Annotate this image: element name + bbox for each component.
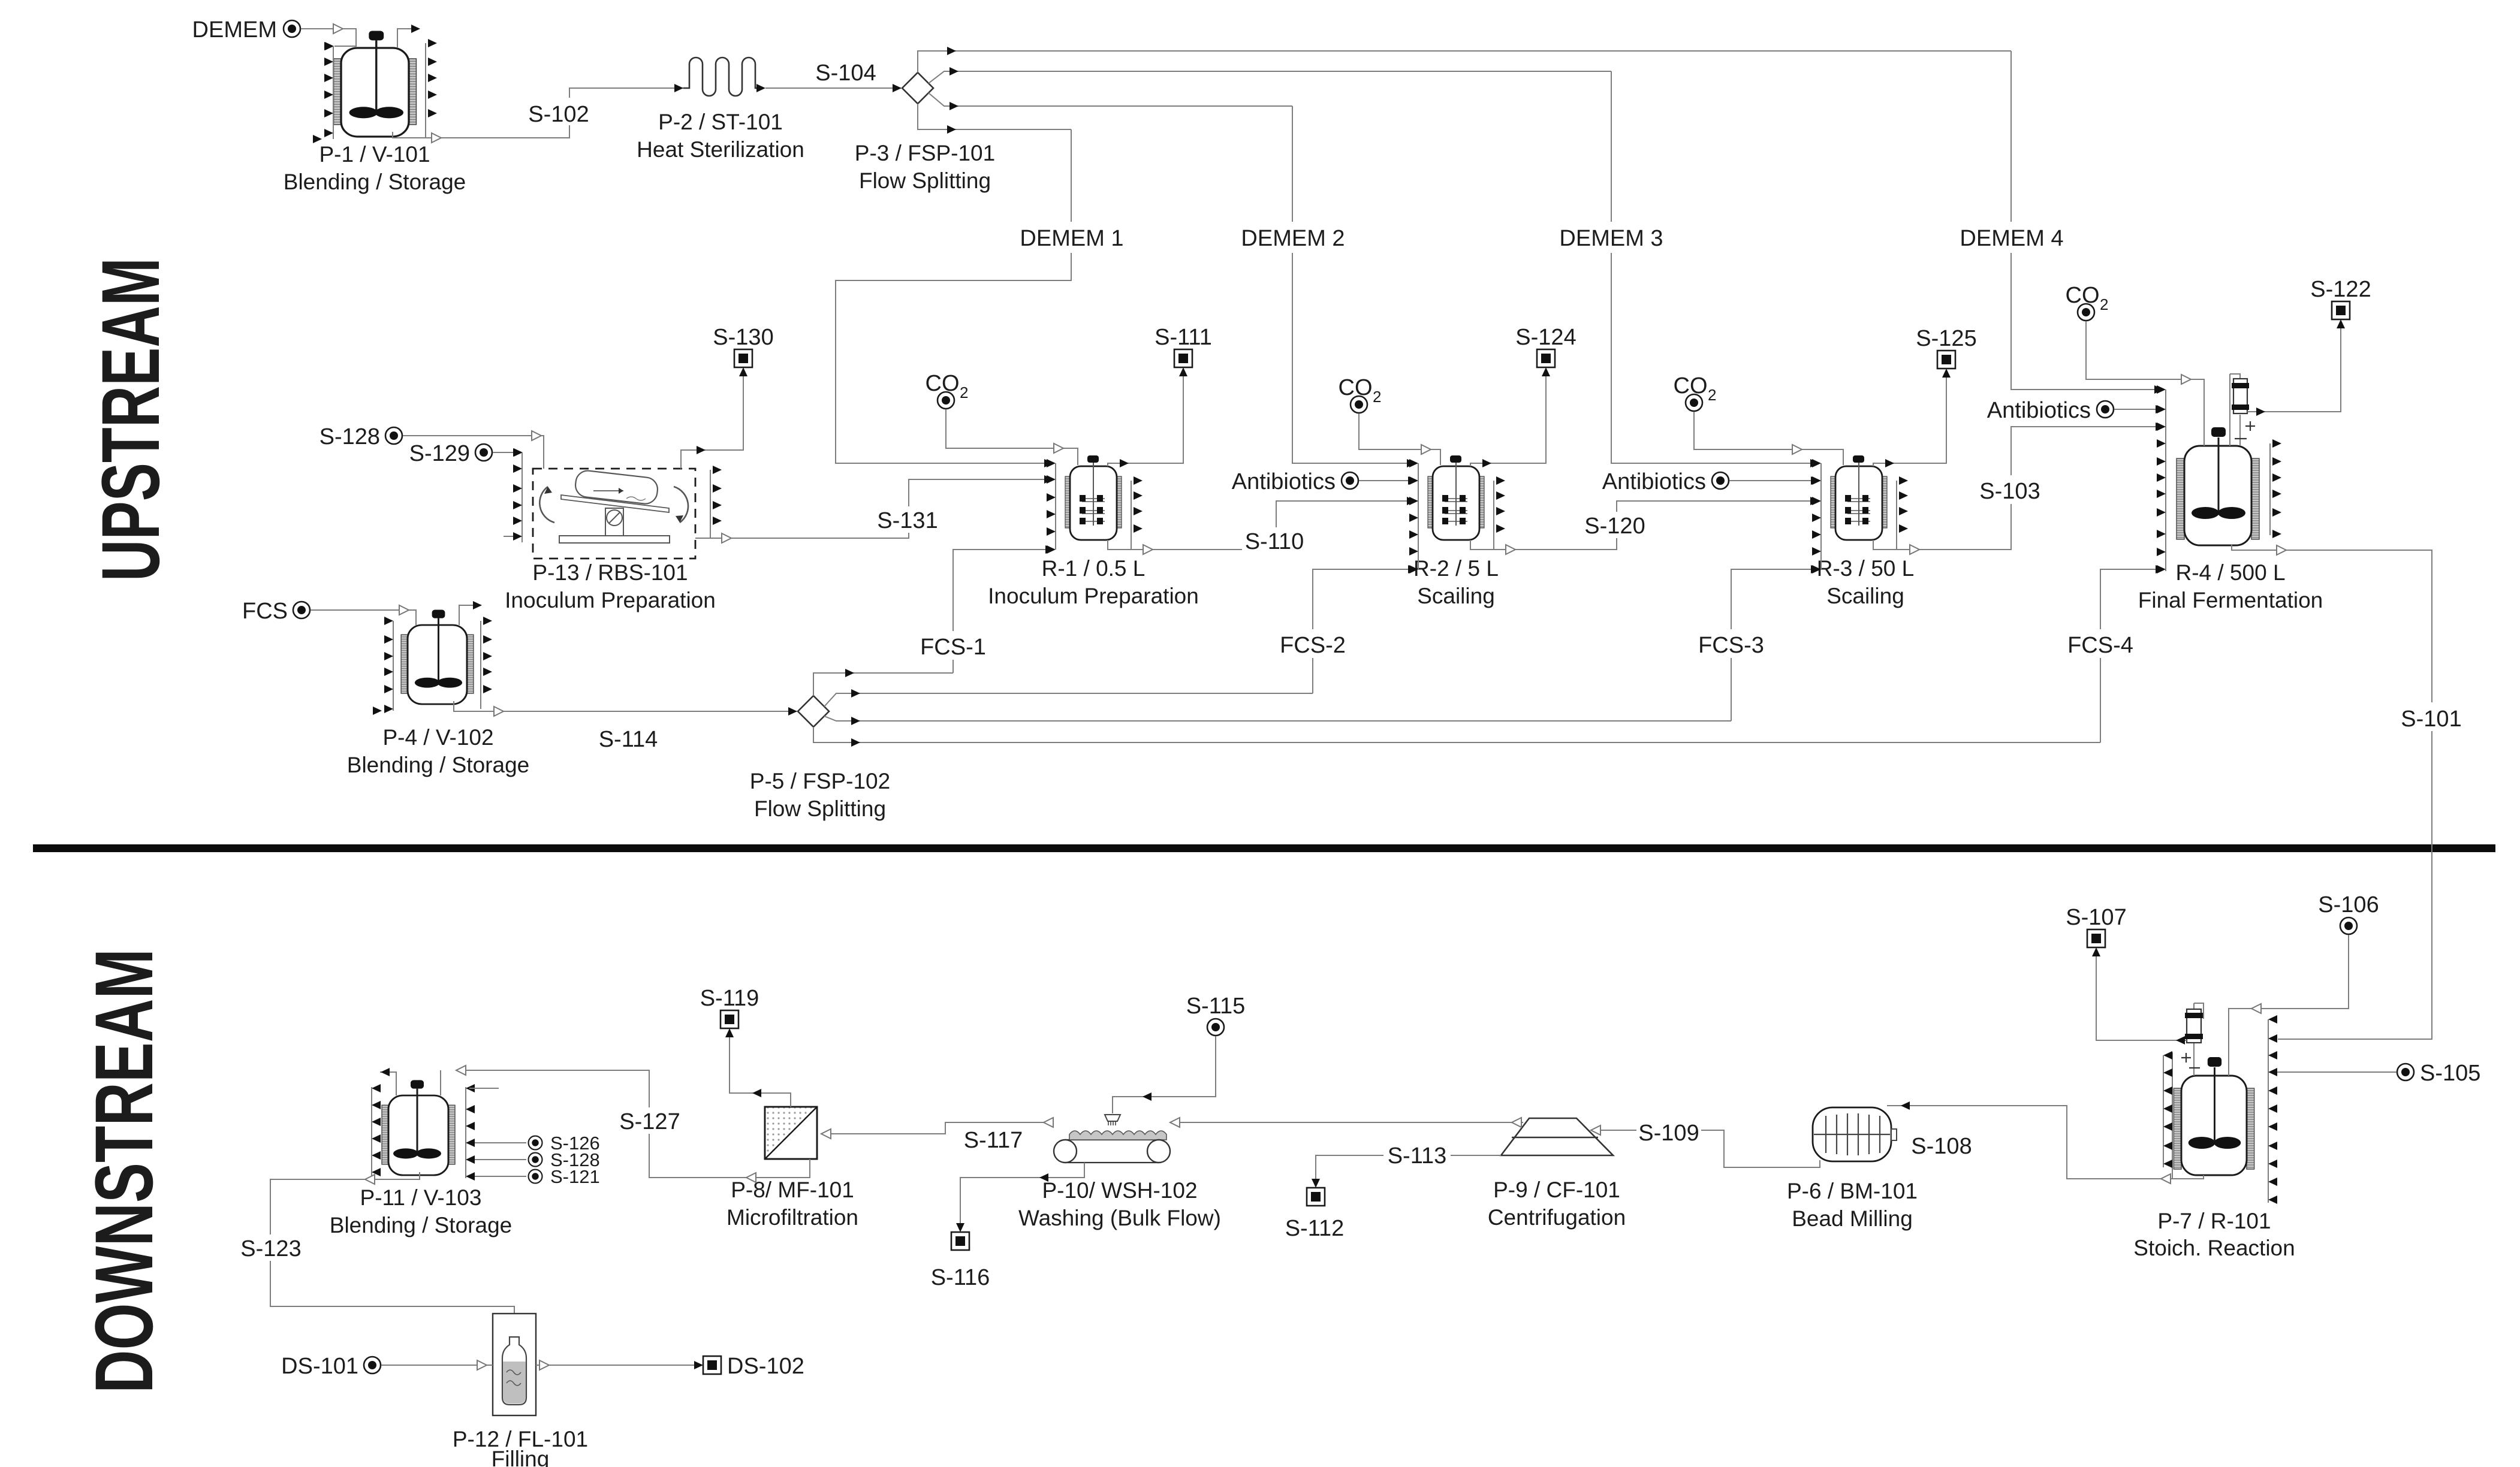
wire S-111 R-1 vent to sink: [1108, 369, 1183, 466]
wire S-102 P-1 to P-2: [393, 88, 683, 138]
svg-text:2: 2: [960, 384, 968, 402]
stream source S-128: [385, 427, 402, 444]
wire DEMEM 4 vertical to R-4: [2011, 51, 2156, 390]
svg-text:CO: CO: [926, 371, 960, 396]
rocker base: [559, 536, 670, 543]
svg-text:DEMEM 1: DEMEM 1: [1020, 226, 1123, 251]
svg-text:S-119: S-119: [700, 986, 759, 1011]
P-11 stub top right: [469, 1088, 499, 1089]
P-7 right inlet port column: [2268, 1019, 2269, 1203]
wire S-119 P-8 to sink: [730, 1030, 791, 1107]
wire Antibiotics to R-4: [2114, 409, 2157, 410]
svg-text:P-11 / V-103: P-11 / V-103: [360, 1185, 482, 1210]
stream source S-126: [529, 1136, 542, 1150]
stream source S-115: [1207, 1019, 1224, 1036]
wire S-104 P-2 to P-3: [765, 87, 901, 89]
svg-text:S-131: S-131: [877, 508, 938, 533]
stream source Antibiotics for R-3: [1712, 472, 1729, 489]
stream sink S-130: [734, 349, 752, 367]
stream source CO2 for R-2: [1351, 396, 1367, 413]
stream source DEMEM: [284, 20, 300, 37]
stream source DS-101: [364, 1357, 381, 1374]
P-7 inner pipe: [2172, 1052, 2173, 1179]
wire S-125 R-3 vent to sink: [1873, 370, 1946, 466]
svg-text:S-123: S-123: [240, 1236, 301, 1261]
svg-text:FCS-2: FCS-2: [1280, 633, 1346, 658]
svg-text:Flow Splitting: Flow Splitting: [859, 168, 991, 193]
wire S-120 R-2 to R-3: [1470, 501, 1811, 550]
wire S-121 to P-11: [475, 1176, 526, 1177]
svg-text:Filling: Filling: [492, 1447, 550, 1467]
svg-text:2: 2: [1373, 388, 1381, 406]
svg-text:FCS: FCS: [242, 599, 288, 624]
wire Antibiotics to R-3: [1729, 480, 1812, 481]
microfilter P-8 / MF-101: [765, 1107, 817, 1159]
wire splitter out 4 to DEMEM 1 drop: [918, 104, 1071, 129]
stream source CO2 for R-1: [938, 392, 954, 409]
P-7 sample valve marks: [2181, 1053, 2200, 1068]
svg-text:S-114: S-114: [599, 727, 658, 752]
svg-text:S-113: S-113: [1388, 1143, 1447, 1169]
wire S-106 to P-7: [2229, 935, 2349, 1076]
stream source S-128b: [529, 1153, 542, 1167]
wire splitter out 1 to DEMEM 4 drop: [918, 51, 2011, 73]
R-2 left inlet port column: [1418, 463, 1419, 569]
svg-text:S-129: S-129: [409, 441, 470, 466]
svg-text:DS-102: DS-102: [727, 1354, 804, 1379]
rocking bioreactor P-13 / RBS-101: [533, 469, 695, 559]
svg-text:P-9 / CF-101: P-9 / CF-101: [1493, 1178, 1620, 1202]
svg-text:S-128: S-128: [319, 424, 380, 449]
P-1 right outlet port column: [425, 43, 426, 138]
svg-text:S-110: S-110: [1245, 529, 1304, 554]
wire FCS-4 to R-4: [2100, 569, 2157, 742]
svg-text:S-120: S-120: [1584, 514, 1645, 539]
section divider line: [33, 844, 2495, 852]
svg-text:P-3 / FSP-101: P-3 / FSP-101: [855, 141, 995, 165]
svg-text:DEMEM 3: DEMEM 3: [1559, 226, 1663, 251]
svg-text:S-105: S-105: [2420, 1061, 2480, 1086]
svg-text:FCS-3: FCS-3: [1698, 633, 1764, 658]
stream sink S-124: [1537, 349, 1555, 367]
svg-text:DEMEM: DEMEM: [192, 17, 277, 43]
P-4 right outlet port column: [480, 621, 481, 709]
svg-text:P-6 / BM-101: P-6 / BM-101: [1787, 1179, 1918, 1203]
stream sink S-125: [1937, 351, 1955, 369]
svg-text:P-5 / FSP-102: P-5 / FSP-102: [750, 769, 890, 793]
svg-text:CO: CO: [1674, 373, 1708, 399]
svg-text:P-7 / R-101: P-7 / R-101: [2157, 1209, 2271, 1233]
P-7 condenser pipes: [2194, 1003, 2204, 1076]
svg-text:S-106: S-106: [2318, 892, 2379, 917]
P-11 top right inlet pipe: [440, 1070, 441, 1095]
fermenter R-2 / 5 L: [1428, 455, 1484, 540]
wire S-116 washer to sink: [960, 1163, 1084, 1224]
svg-text:S-115: S-115: [1186, 994, 1246, 1019]
wire S-101 R-4 to P-7: [2232, 545, 2432, 1039]
svg-text:R-1 / 0.5 L: R-1 / 0.5 L: [1042, 556, 1146, 581]
wire splitter out 2 FCS-2: [824, 693, 1313, 707]
svg-text:R-3 / 50 L: R-3 / 50 L: [1817, 556, 1914, 581]
stream source S-121: [529, 1170, 542, 1184]
stream sink S-107: [2087, 929, 2105, 947]
svg-text:Blending / Storage: Blending / Storage: [284, 170, 466, 194]
svg-text:S-112: S-112: [1285, 1216, 1345, 1241]
washer P-10 / WSH-102: [1054, 1115, 1170, 1163]
svg-text:Washing (Bulk Flow): Washing (Bulk Flow): [1018, 1206, 1221, 1230]
wire S-105 to P-7: [2277, 1071, 2397, 1073]
stream sink S-119: [721, 1010, 738, 1028]
svg-text:Centrifugation: Centrifugation: [1488, 1205, 1626, 1230]
wire CO2 to R-2: [1359, 413, 1440, 465]
wire S-114 P-4 to P-5: [454, 701, 797, 711]
R-2 right outlet port column: [1493, 481, 1494, 550]
blending tank P-11 / V-103: [382, 1080, 455, 1175]
svg-text:DEMEM 2: DEMEM 2: [1241, 226, 1345, 251]
R-4 condenser: [2233, 379, 2247, 413]
R-3 right outlet port column: [1896, 481, 1897, 550]
fermenter R-3 / 50 L: [1831, 455, 1887, 540]
wire splitter out 4 FCS-4: [813, 727, 2100, 742]
R-3 left inlet port column: [1820, 463, 1822, 569]
svg-text:Heat Sterilization: Heat Sterilization: [637, 137, 804, 162]
P-11 right inlet port column: [465, 1087, 466, 1178]
heat sterilizer coil P-2 / ST-101: [683, 58, 756, 96]
svg-text:S-127: S-127: [619, 1109, 680, 1134]
svg-text:DEMEM 4: DEMEM 4: [1960, 226, 2063, 251]
wire S-123 P-11 to P-12: [270, 1172, 514, 1314]
R-1 right outlet port column: [1131, 481, 1132, 550]
wire S-109 P-6 to P-9: [1591, 1130, 1820, 1167]
wire S-128b to P-11: [475, 1159, 526, 1160]
stream source FCS: [293, 602, 310, 618]
P-11 top left vent stub: [380, 1072, 396, 1095]
wire FCS-1 to R-1: [953, 550, 1047, 673]
stream sink S-116: [951, 1232, 969, 1250]
svg-text:Final Fermentation: Final Fermentation: [2138, 588, 2323, 612]
svg-text:CO: CO: [2066, 283, 2100, 308]
svg-text:S-101: S-101: [2401, 707, 2461, 732]
svg-text:R-4 / 500 L: R-4 / 500 L: [2175, 560, 2285, 585]
R-4 condenser pipes: [2230, 374, 2240, 446]
P-7 left outlet port column: [2163, 1055, 2164, 1167]
svg-text:DOWNSTREAM: DOWNSTREAM: [79, 949, 170, 1393]
wire S-130 P-13 vent to sink: [681, 369, 743, 469]
wire S-129 to P-13: [493, 452, 515, 453]
svg-text:Inoculum Preparation: Inoculum Preparation: [988, 584, 1199, 608]
svg-text:CO: CO: [1339, 375, 1373, 400]
stream source Antibiotics for R-2: [1342, 472, 1358, 489]
svg-text:S-103: S-103: [1979, 479, 2040, 504]
P-1 left inlet port column: [333, 46, 334, 139]
svg-text:P-8/ MF-101: P-8/ MF-101: [731, 1178, 854, 1202]
svg-text:S-125: S-125: [1916, 326, 1976, 351]
svg-text:S-121: S-121: [550, 1166, 600, 1187]
wire Antibiotics to R-2: [1359, 480, 1409, 481]
wire DS-101 to P-12: [381, 1365, 493, 1366]
R-4 right outlet port column: [2269, 443, 2271, 535]
stream sink S-111: [1174, 349, 1192, 367]
fermenter R-1 / 0.5 L: [1065, 455, 1122, 540]
svg-text:P-2 / ST-101: P-2 / ST-101: [658, 110, 783, 134]
stream source Antibiotics for R-4: [2097, 401, 2114, 418]
filler P-12 / FL-101: [493, 1314, 536, 1415]
svg-text:Antibiotics: Antibiotics: [1987, 398, 2091, 423]
wire S-127 P-8 to P-11: [456, 1070, 810, 1178]
wire CO2 to R-1: [946, 409, 1078, 465]
blending tank P-4 / V-102: [401, 610, 474, 704]
stream sink S-122: [2332, 301, 2350, 319]
flow splitter P-5 / FSP-102: [798, 696, 829, 727]
blending tank P-1 / V-101: [334, 31, 417, 137]
wire S-117 P-10 to P-8: [821, 1122, 1054, 1134]
P-4 left inlet port column: [393, 621, 394, 711]
svg-text:UPSTREAM: UPSTREAM: [85, 258, 177, 581]
wire S-131 P-13 to R-1: [695, 479, 1045, 538]
svg-text:FCS-1: FCS-1: [920, 635, 986, 660]
stream sink S-112: [1307, 1188, 1325, 1206]
svg-text:S-117: S-117: [964, 1128, 1023, 1153]
wire CO2 to R-4: [2086, 321, 2204, 446]
wire splitter out 3 to DEMEM 2 drop: [929, 93, 1292, 106]
wire S-108 P-7 to P-6: [1887, 1106, 2204, 1179]
wire splitter out 2 to DEMEM 3 drop: [929, 71, 1611, 83]
R-4 left inlet port column: [2165, 390, 2166, 571]
wire splitter out 1 FCS-1: [813, 673, 953, 696]
svg-text:S-111: S-111: [1155, 325, 1212, 350]
flow splitter P-3 / FSP-101: [902, 73, 933, 104]
wire FCS-2 to R-2: [1313, 569, 1409, 693]
svg-text:Blending / Storage: Blending / Storage: [330, 1213, 512, 1237]
wire splitter out 3 FCS-3: [824, 716, 1731, 721]
wire DEMEM to P-1: [301, 29, 356, 46]
wire P-9 to P-10 washer feed: [1170, 1122, 1523, 1123]
P-11 left outlet port column: [371, 1087, 372, 1178]
svg-text:Stoich. Reaction: Stoich. Reaction: [2133, 1236, 2295, 1260]
svg-text:P-10/ WSH-102: P-10/ WSH-102: [1042, 1178, 1197, 1203]
wire S-107 condenser to sink: [2096, 949, 2187, 1040]
svg-text:S-102: S-102: [528, 102, 589, 127]
stream sink DS-102: [703, 1356, 721, 1374]
washer shower head: [1105, 1115, 1120, 1121]
svg-text:S-130: S-130: [713, 325, 773, 350]
rocker platform: [561, 495, 669, 512]
svg-text:R-2 / 5 L: R-2 / 5 L: [1413, 556, 1499, 581]
svg-text:DS-101: DS-101: [281, 1354, 358, 1379]
wire S-113 P-9 to sink S-112: [1316, 1155, 1501, 1179]
svg-text:Microfiltration: Microfiltration: [727, 1205, 858, 1230]
rocker bag: [574, 469, 659, 505]
wire S-110 R-1 to R-2: [1108, 501, 1408, 550]
reactor P-7 / R-101: [2174, 1057, 2254, 1175]
rocker pivot: [605, 508, 623, 536]
wire S-103 R-3 to R-4: [1873, 427, 2157, 550]
svg-text:Scailing: Scailing: [1417, 584, 1495, 608]
P-4 top vent stub: [459, 605, 473, 625]
rocker left curved arrow: [539, 487, 554, 523]
stream source CO2 for R-3: [1686, 394, 1702, 411]
svg-text:Bead Milling: Bead Milling: [1792, 1206, 1913, 1231]
washer belt: [1065, 1139, 1159, 1140]
svg-text:S-107: S-107: [2066, 905, 2126, 930]
svg-text:P-4 / V-102: P-4 / V-102: [382, 725, 493, 750]
svg-text:P-13 / RBS-101: P-13 / RBS-101: [532, 560, 688, 585]
centrifuge P-9 / CF-101: [1501, 1118, 1613, 1155]
P-7 condenser: [2187, 1009, 2201, 1043]
svg-text:Blending / Storage: Blending / Storage: [347, 753, 529, 777]
svg-text:2: 2: [1708, 386, 1716, 404]
svg-text:Antibiotics: Antibiotics: [1232, 469, 1336, 494]
svg-text:Inoculum Preparation: Inoculum Preparation: [505, 588, 716, 612]
wire S-128 to P-13: [403, 436, 544, 469]
stream source S-105: [2397, 1064, 2414, 1080]
P-13 left inlet port column: [522, 452, 523, 542]
svg-text:P-1 / V-101: P-1 / V-101: [319, 142, 430, 167]
svg-text:S-108: S-108: [1911, 1134, 1972, 1159]
washer cake (wavy solids): [1069, 1131, 1166, 1140]
svg-text:S-122: S-122: [2310, 277, 2371, 302]
wire S-124 R-2 vent to sink: [1470, 369, 1546, 466]
wire DEMEM 1 vertical to R-1: [836, 129, 1071, 463]
P-13 bottom-left stub: [504, 536, 513, 537]
stream label S-102: [533, 98, 585, 125]
washer rollers: [1054, 1140, 1077, 1163]
wire DEMEM 3 vertical to R-3: [1611, 71, 1811, 463]
wire S-122 condenser to sink: [2247, 321, 2341, 412]
svg-text:Flow Splitting: Flow Splitting: [754, 796, 886, 821]
P-13 right outlet port column: [710, 470, 711, 538]
wire CO2 to R-3: [1694, 412, 1843, 465]
wire S-115 to washer shower: [1113, 1036, 1216, 1113]
svg-text:S-104: S-104: [815, 61, 876, 86]
P-1 top vent stub: [397, 29, 411, 48]
R-4 sample valve marks: [2235, 421, 2255, 439]
stream source CO2 for R-4: [2078, 304, 2094, 321]
svg-text:S-116: S-116: [931, 1265, 990, 1290]
wire DEMEM 2 vertical to R-2: [1292, 106, 1408, 463]
stream source S-129: [475, 444, 492, 461]
svg-text:Antibiotics: Antibiotics: [1602, 469, 1706, 494]
stream source S-106: [2340, 917, 2357, 934]
svg-text:Scailing: Scailing: [1826, 584, 1904, 608]
wire DS-102 P-12 to sink: [536, 1365, 701, 1366]
bead mill P-6 / BM-101: [1813, 1107, 1897, 1161]
wire FCS-3 to R-3: [1731, 569, 1812, 721]
svg-text:2: 2: [2100, 295, 2108, 313]
svg-text:S-124: S-124: [1515, 325, 1576, 350]
svg-text:S-109: S-109: [1638, 1121, 1699, 1146]
wire S-126 to P-11: [475, 1142, 526, 1143]
R-1 left inlet port column: [1055, 463, 1056, 550]
rocker right curved arrow: [674, 487, 688, 523]
wire FCS to P-4: [311, 610, 416, 625]
fermentor R-4 / 500 L: [2177, 427, 2259, 545]
svg-text:FCS-4: FCS-4: [2067, 633, 2133, 658]
